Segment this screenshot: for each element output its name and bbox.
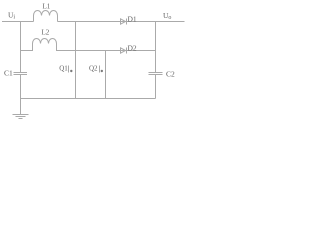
svg-text:Q1: Q1 bbox=[59, 65, 68, 73]
svg-text:L1: L1 bbox=[43, 3, 51, 11]
svg-text:Uo: Uo bbox=[163, 11, 171, 21]
svg-text:D2: D2 bbox=[128, 43, 137, 52]
svg-text:C1: C1 bbox=[4, 69, 13, 78]
svg-text:C2: C2 bbox=[166, 70, 175, 79]
svg-text:D1: D1 bbox=[128, 14, 137, 23]
svg-text:Ui: Ui bbox=[8, 11, 15, 21]
svg-text:Q2: Q2 bbox=[89, 65, 98, 73]
svg-text:L2: L2 bbox=[42, 29, 50, 37]
